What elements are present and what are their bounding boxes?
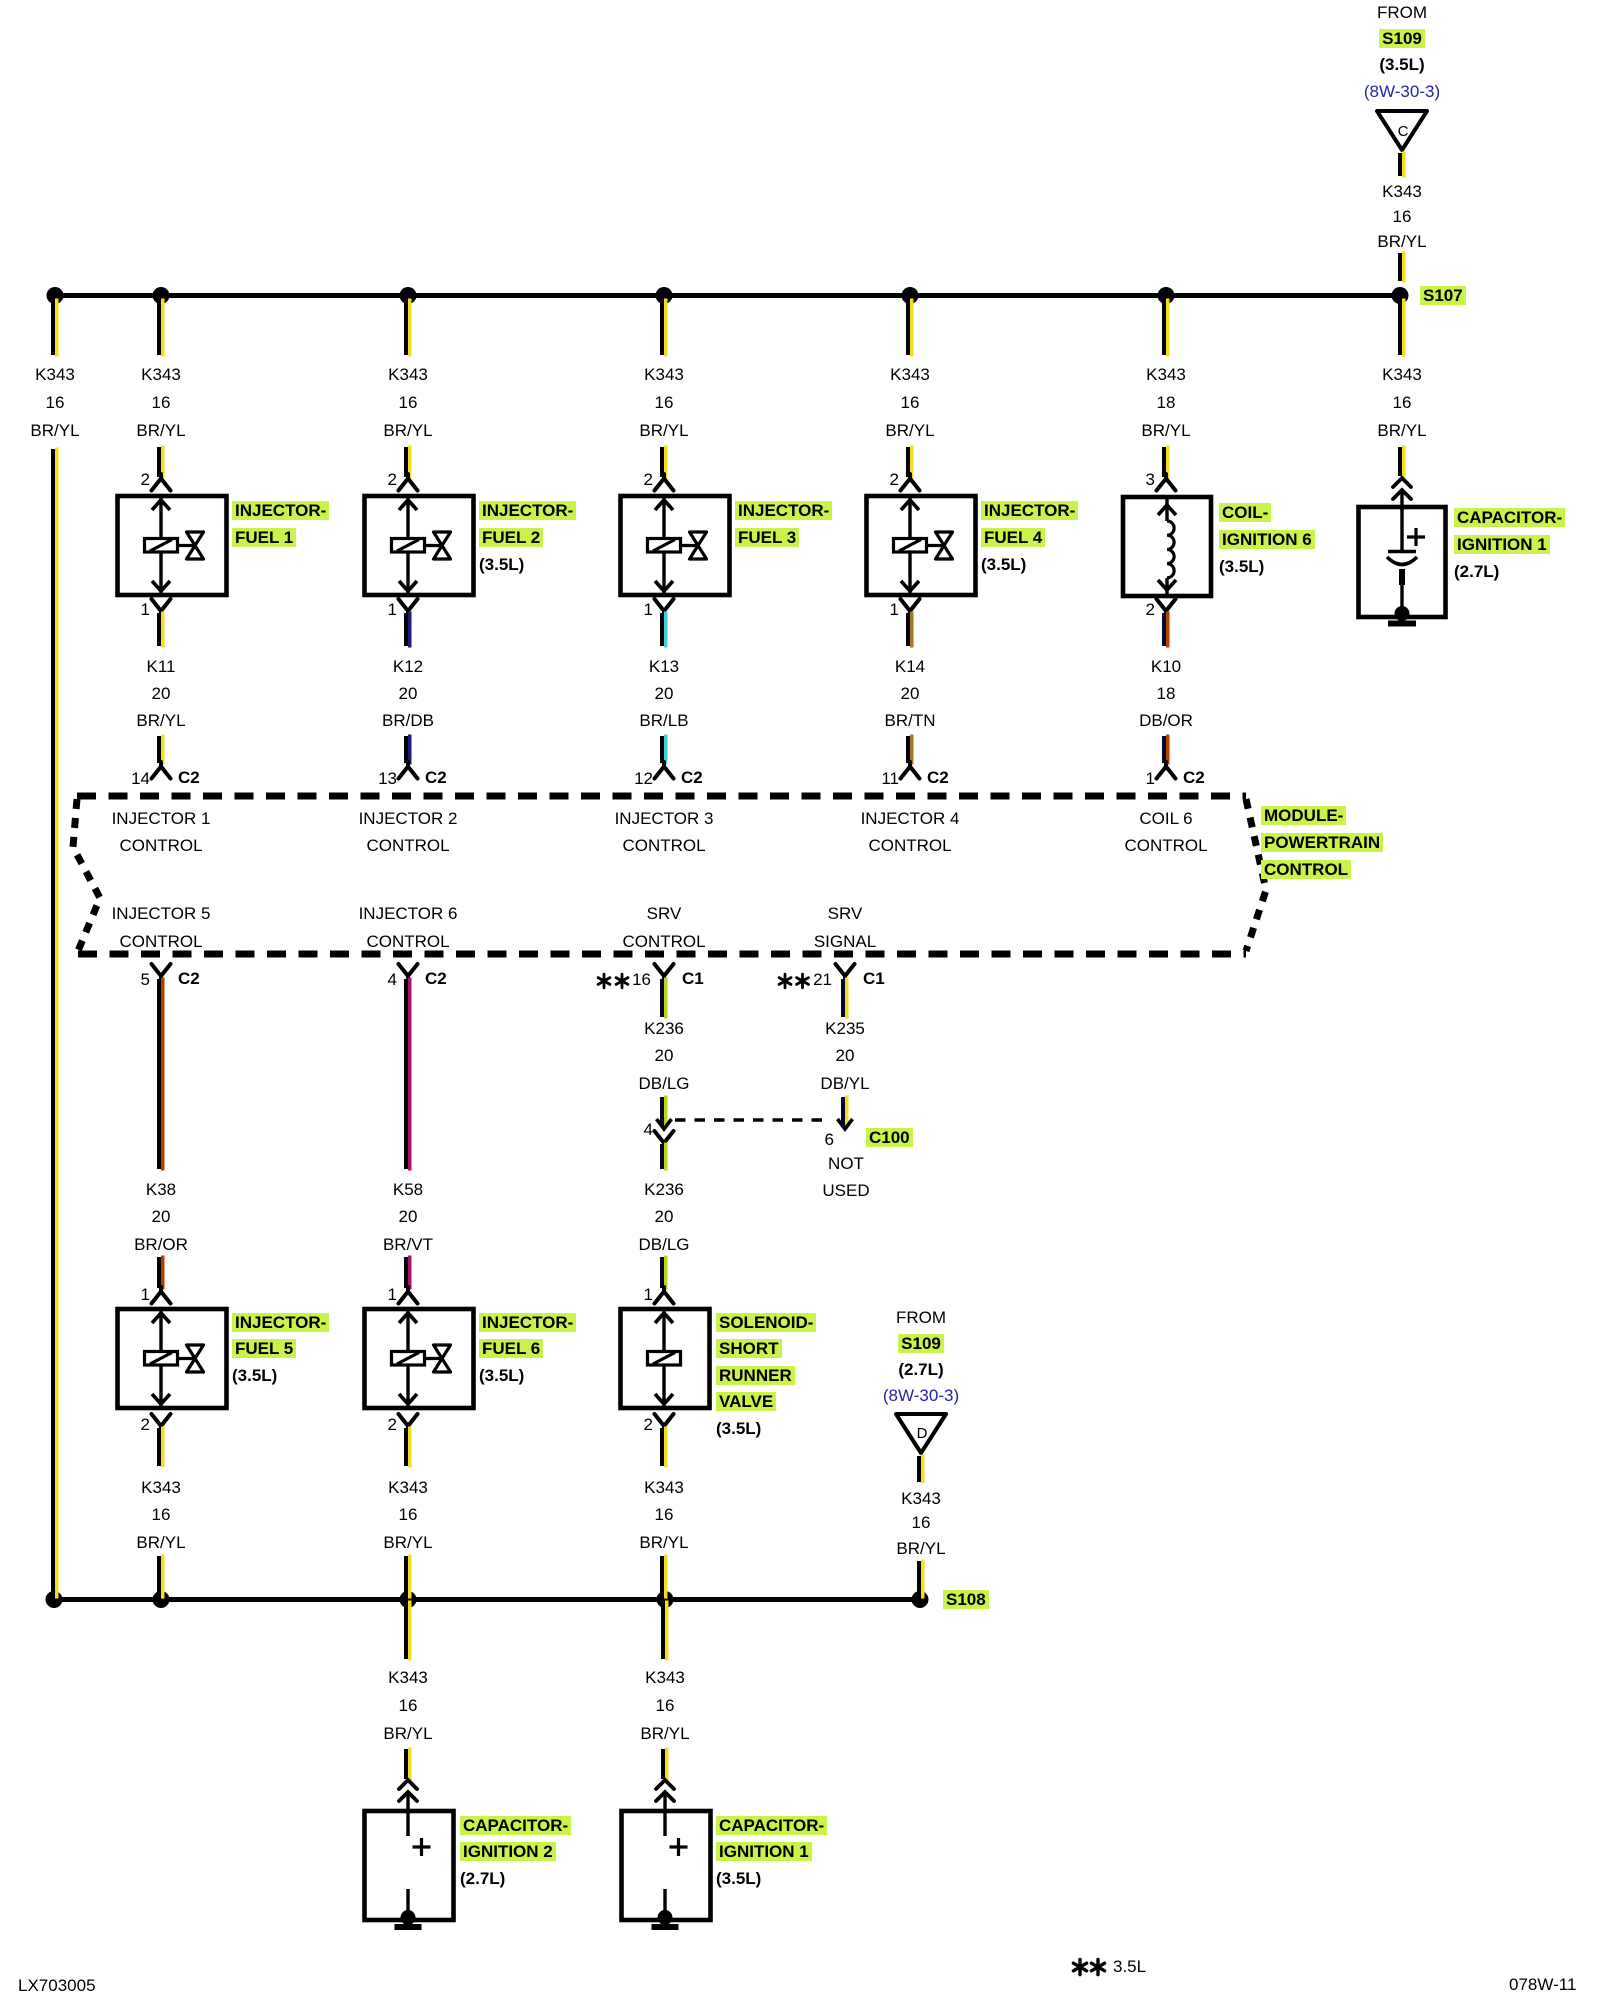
module text INJECTOR 5 CONTROL xyxy=(112,904,211,923)
module text INJECTOR 1 CONTROL xyxy=(112,809,211,828)
connector pin 2 of injector 4 xyxy=(901,474,920,491)
wire label K236 20 DB/LG lower xyxy=(644,1180,684,1199)
connector pin 2 below short runner valve solenoid xyxy=(655,1414,674,1434)
wire label K343 16 BR/YL column x=408 xyxy=(388,365,428,384)
wire K11 to PCM pin 14 xyxy=(157,736,161,763)
module pin 11 C2 xyxy=(881,769,899,788)
wire K343 from SRV solenoid pin 2 xyxy=(660,1428,664,1466)
label CAPACITOR-IGNITION 1 (2.7L) xyxy=(1454,508,1565,527)
wire label K343 16 BR/YL column x=664 xyxy=(644,365,684,384)
connector pin 1 below injector 2 xyxy=(399,599,418,619)
connector pin 21 below module xyxy=(836,964,855,984)
module pin 5 C2 xyxy=(141,970,150,989)
wire K343 lower segment to capacitor ignition 2 xyxy=(404,1749,408,1779)
label FROM S109 (3.5L) (8W-30-3) above connector C xyxy=(1377,3,1427,22)
label INJECTOR-FUEL 6 (3.5L) xyxy=(479,1313,576,1332)
module pin 16 C1 xyxy=(632,970,651,989)
module pin 1 C2 xyxy=(1146,769,1155,788)
wire label K343 16 BR/YL above S107 xyxy=(1382,182,1422,201)
module text INJECTOR 2 CONTROL xyxy=(359,809,458,828)
wire K343 branch to injector 3 xyxy=(660,300,664,355)
capacitor C1 box - CAPACITOR-IGNITION 1 (2.7L) with ground xyxy=(1359,507,1446,617)
module pin 21 C1 xyxy=(813,970,832,989)
wire label K14 20 BR/TN xyxy=(895,657,925,676)
connector pin 5 below module xyxy=(152,964,171,984)
module pin 12 C2 xyxy=(634,769,653,788)
wire label K11 20 BR/YL xyxy=(147,657,176,676)
wire K343 lower segment to coil 6 pin 3 xyxy=(1162,447,1166,477)
connector C2 pin 11 at module xyxy=(901,762,920,779)
connector pin 1 of injector 6 xyxy=(399,1287,418,1304)
pin numbers 1/2 below top boxes xyxy=(141,600,150,619)
connector pin 1 below injector 1 xyxy=(152,599,171,619)
wire K235 into C100 pin 6 xyxy=(841,1097,845,1126)
connector C2 pin 14 at module xyxy=(152,762,171,779)
sheet code LX703005 xyxy=(18,1976,96,1995)
wire K14 to PCM pin 11 xyxy=(906,736,910,763)
wire K343 from S108 to capacitor ignition 1 (3.5L) xyxy=(661,1602,665,1659)
legend asterisk marks xyxy=(1073,1959,1086,1974)
wire label K235 20 DB/YL xyxy=(825,1019,865,1038)
wire K235 DB/YL from PCM pin 21 xyxy=(841,979,845,1017)
wire K343 from injector 6 pin 2 xyxy=(404,1428,408,1466)
wire label K343 16 BR/YL below S108 x=665 xyxy=(645,1668,685,1687)
label MODULE-POWERTRAIN CONTROL xyxy=(1261,806,1346,825)
capacitor ignition 2 box with plus and ground xyxy=(365,1811,454,1920)
wire K343 injector 6 to S108 xyxy=(404,1556,408,1597)
module pin 13 C2 xyxy=(378,769,397,788)
wire K14 BR/TN from injector 4 xyxy=(906,613,910,646)
off-page connector D (from S109 2.7L) xyxy=(896,1414,946,1453)
connector pin 2 of injector 1 xyxy=(152,474,171,491)
connector pin 1 below injector 4 xyxy=(901,599,920,619)
module pin 14 C2 xyxy=(131,769,150,788)
label SOLENOID-SHORT RUNNER VALVE (3.5L) xyxy=(716,1313,816,1332)
wire K343 branch to injector 1 xyxy=(157,300,161,355)
wire K12 to PCM pin 13 xyxy=(404,736,408,763)
node S108 bottom power bus xyxy=(54,1597,920,1602)
injector U6 box - INJECTOR-FUEL 6 xyxy=(365,1309,474,1408)
label INJECTOR-FUEL 5 (3.5L) xyxy=(232,1313,329,1332)
pin numbers 2/3 above top boxes xyxy=(141,470,150,489)
wire K343 into S107 xyxy=(1398,253,1402,281)
wire K343 lower segment to injector 1 pin 2 xyxy=(157,447,161,477)
wire label K343 16 BR/YL bottom x=161 xyxy=(141,1478,181,1497)
wire K58 to injector 6 pin 1 xyxy=(404,1257,408,1288)
wire label K38 20 BR/OR xyxy=(146,1180,176,1199)
wire K343 from connector D xyxy=(917,1456,921,1482)
connector pin 2 below coil 6 xyxy=(1157,599,1176,619)
module text INJECTOR 6 CONTROL xyxy=(359,904,458,923)
module text COIL 6 CONTROL xyxy=(1139,809,1192,828)
wire label K343 18 BR/YL coil column xyxy=(1146,365,1186,384)
chevron arrow into capacitor ignition 2 xyxy=(399,1780,417,1812)
wire K343 branch to capacitor column xyxy=(1398,300,1402,355)
coil T1 box - COIL-IGNITION 6 xyxy=(1123,497,1211,596)
connector pin 1 below injector 3 xyxy=(655,599,674,619)
sheet code 078W-11 xyxy=(1509,1975,1576,1994)
label INJECTOR-FUEL 4 (3.5L) xyxy=(981,501,1078,520)
node S107 top power bus xyxy=(55,293,1400,298)
asterisk marks pin 21 xyxy=(779,974,791,988)
wire label K343 16 BR/YL column x=161 xyxy=(141,365,181,384)
module text INJECTOR 3 CONTROL xyxy=(615,809,714,828)
wire K11 BR/YL from injector 1 xyxy=(157,613,161,646)
wire label K343 16 BR/YL column x=1402 xyxy=(1382,365,1422,384)
wire label K343 16 BR/YL below S108 x=408 xyxy=(388,1668,428,1687)
node label S108 xyxy=(943,1590,989,1609)
connector pin 2 below injector 6 xyxy=(399,1414,418,1434)
wire K343 branch to coil 6 xyxy=(1162,300,1166,355)
wire label K343 16 BR/YL column x=910 xyxy=(890,365,930,384)
wire K343 lower segment to capacitor ignition 1 (3.5L) xyxy=(661,1749,665,1779)
wire K343 segment to capacitor ignition 1 xyxy=(1398,447,1402,476)
module text SRV CONTROL xyxy=(647,904,682,923)
label FROM S109 (2.7L) (8W-30-3) above connector D xyxy=(896,1308,946,1327)
wire K343 from connector C xyxy=(1398,153,1402,176)
label NOT USED xyxy=(828,1154,864,1173)
wire K12 BR/DB from injector 2 xyxy=(404,613,408,646)
label CAPACITOR-IGNITION 1 (3.5L) xyxy=(716,1816,827,1835)
wire K343 from S108 to capacitor ignition 2 xyxy=(404,1602,408,1659)
wire K343 SRV to S108 xyxy=(660,1556,664,1597)
connector pin 2 of injector 2 xyxy=(399,474,418,491)
label CAPACITOR-IGNITION 2 (2.7L) xyxy=(460,1816,571,1835)
wire K236 to SRV solenoid pin 1 xyxy=(660,1257,664,1288)
wire label K10 18 DB/OR xyxy=(1151,657,1181,676)
injector U1 box - INJECTOR-FUEL 1 xyxy=(118,496,227,595)
solenoid L1 box - SOLENOID-SHORT RUNNER VALVE xyxy=(621,1309,710,1408)
wire K13 to PCM pin 12 xyxy=(660,736,664,763)
wire K10 to PCM pin 1 xyxy=(1162,736,1166,763)
asterisk marks pin 16 xyxy=(598,974,610,988)
wire K343 lower segment to injector 2 pin 2 xyxy=(404,447,408,477)
wire K10 DB/OR from coil 6 xyxy=(1162,613,1166,646)
capacitor ignition 1 (3.5L) box with plus and ground xyxy=(622,1811,711,1920)
wire label K343 16 BR/YL bottom x=408 xyxy=(388,1478,428,1497)
module text SRV SIGNAL xyxy=(828,904,863,923)
wire K236 below C100 xyxy=(660,1144,664,1169)
connector C100 pin 6 and label xyxy=(825,1130,834,1149)
connector pin 1 of short runner valve solenoid xyxy=(655,1287,674,1304)
module U100 - MODULE-POWERTRAIN CONTROL dashed outline xyxy=(73,796,1266,954)
chevron arrow into capacitor ignition 1 xyxy=(1393,478,1411,510)
wire K343 from connector D to S108 xyxy=(917,1561,921,1597)
wire K343 branch to injector 2 xyxy=(404,300,408,355)
connector pin 2 of injector 3 xyxy=(655,474,674,491)
connector pin 16 below module xyxy=(655,964,674,984)
wire K343 lower segment to injector 4 pin 2 xyxy=(906,447,910,477)
wire label K58 20 BR/VT xyxy=(393,1180,423,1199)
wire K236 into C100 pin 4 xyxy=(660,1097,664,1126)
label COIL-IGNITION 6 (3.5L) xyxy=(1219,503,1271,522)
wire K343 branch column 1 (left) xyxy=(51,300,55,355)
connector C2 pin 1 at module xyxy=(1157,762,1176,779)
module pin 4 C2 xyxy=(388,970,397,989)
injector U4 box - INJECTOR-FUEL 4 xyxy=(867,496,976,595)
connector pin 2 below injector 5 xyxy=(152,1414,171,1434)
connector pin 4 below module xyxy=(399,964,418,984)
off-page connector C (from S109 3.5L) xyxy=(1377,111,1427,150)
label INJECTOR-FUEL 3 xyxy=(735,501,832,520)
wire K343 left riser S107 to S108 xyxy=(51,449,55,1597)
wire K343 from injector 5 pin 2 xyxy=(157,1428,161,1466)
connector C100 pin 4 fork xyxy=(655,1131,674,1151)
label INJECTOR-FUEL 2 (3.5L) xyxy=(479,501,576,520)
connector C100 dashed tie line xyxy=(675,1118,830,1122)
wire K38 to injector 5 pin 1 xyxy=(157,1257,161,1288)
wire label K236 20 DB/LG upper xyxy=(644,1019,684,1038)
connector C2 pin 13 at module xyxy=(399,762,418,779)
pin numbers 1 above bottom boxes xyxy=(141,1285,150,1304)
injector U3 box - INJECTOR-FUEL 3 xyxy=(621,496,730,595)
chevron arrow into capacitor ignition 1 (3.5L) xyxy=(656,1780,674,1812)
wire label K343 16 BR/YL above S108 xyxy=(901,1489,941,1508)
wire label K343 16 BR/YL bottom x=664 xyxy=(644,1478,684,1497)
wire K58 BR/VT from PCM pin 4 xyxy=(404,979,408,1169)
connector pin 1 of injector 5 xyxy=(152,1287,171,1304)
injector U2 box - INJECTOR-FUEL 2 xyxy=(365,496,474,595)
wire K13 BR/LB from injector 3 xyxy=(660,613,664,646)
wire K343 injector 5 to S108 xyxy=(157,1556,161,1597)
wire label K13 20 BR/LB xyxy=(649,657,679,676)
node label S107 xyxy=(1420,286,1466,305)
injector U5 box - INJECTOR-FUEL 5 xyxy=(118,1309,227,1408)
pin numbers 2 below bottom boxes xyxy=(141,1415,150,1434)
wire label K12 20 BR/DB xyxy=(393,657,423,676)
legend 3.5L xyxy=(1113,1957,1146,1976)
connector C100 pin 4 xyxy=(644,1120,653,1139)
wire K38 BR/OR from PCM pin 5 xyxy=(157,979,161,1169)
wire K236 DB/LG from PCM pin 16 xyxy=(660,979,664,1017)
wire label K343 16 BR/YL column x=55 xyxy=(35,365,75,384)
module text INJECTOR 4 CONTROL xyxy=(861,809,960,828)
wire K343 lower segment to injector 3 pin 2 xyxy=(660,447,664,477)
connector C2 pin 12 at module xyxy=(655,762,674,779)
label INJECTOR-FUEL 1 xyxy=(232,501,329,520)
wire K343 branch to injector 4 xyxy=(906,300,910,355)
connector pin 3 of coil 6 xyxy=(1157,474,1176,491)
